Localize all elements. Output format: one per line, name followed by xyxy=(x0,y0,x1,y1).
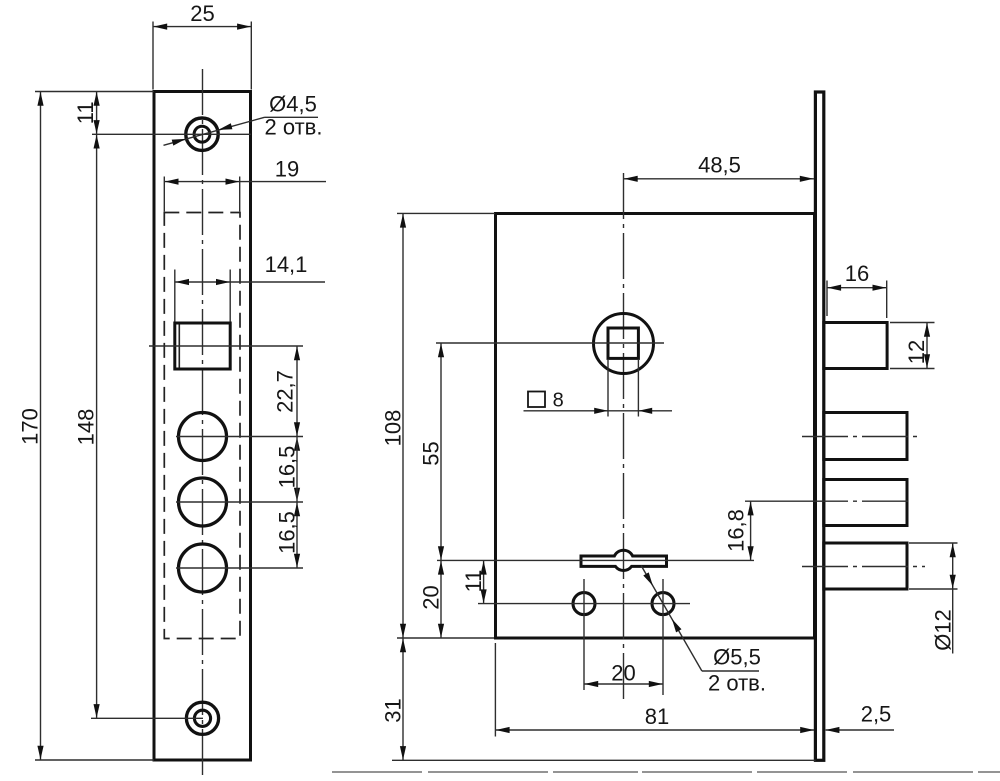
dim square 8 arrows xyxy=(594,408,608,414)
svg-text:16,8: 16,8 xyxy=(724,509,749,552)
latch bolt side view xyxy=(824,323,887,369)
bottom screw hole outer circle xyxy=(186,702,218,734)
dim 22,7 arrows xyxy=(294,346,300,360)
svg-text:8: 8 xyxy=(553,390,564,412)
dim 48,5 line xyxy=(624,178,815,180)
spindle horizontal center line xyxy=(436,342,664,344)
dim 108 top extension xyxy=(397,212,495,214)
leader line diameter 4,5 xyxy=(164,117,265,145)
dim 20 right-view arrows xyxy=(438,561,444,575)
dim 25 extension lines xyxy=(152,22,154,90)
spindle square hole xyxy=(608,328,638,358)
fixing hole right xyxy=(652,593,674,615)
svg-text:16: 16 xyxy=(845,261,869,286)
dim 81 arrows xyxy=(496,727,510,733)
dim 14,1 extension lines xyxy=(174,270,176,322)
bottom screw hole inner circle xyxy=(194,710,210,726)
dim 108 bottom extension xyxy=(397,637,494,639)
svg-text:Ø5,5: Ø5,5 xyxy=(713,645,761,670)
dim 12 extension lines xyxy=(890,322,935,324)
slider center line xyxy=(437,559,754,561)
dim 108 arrows xyxy=(400,214,406,228)
svg-text:170: 170 xyxy=(18,408,43,445)
svg-text:Ø12: Ø12 xyxy=(931,609,956,651)
svg-text:148: 148 xyxy=(74,409,99,446)
dim square 8 symbol xyxy=(528,392,545,408)
dim 22,7 line xyxy=(296,346,298,437)
svg-text:14,1: 14,1 xyxy=(265,252,308,277)
dim 11 arrows left view xyxy=(94,92,100,106)
svg-text:31: 31 xyxy=(381,698,406,722)
dim 11 right-view line xyxy=(483,560,485,603)
dim 2,5 arrow xyxy=(826,727,840,733)
fixing holes horizontal center line xyxy=(478,603,690,605)
dim 12 arrows xyxy=(924,323,930,337)
lock body vertical center line xyxy=(623,173,625,700)
svg-text:25: 25 xyxy=(190,1,214,26)
bolt hole circle 3 xyxy=(179,544,227,592)
dim 16 extension lines xyxy=(826,281,828,317)
deadbolt 1 center line xyxy=(802,436,922,438)
slider lever with boss xyxy=(581,550,667,570)
svg-text:11: 11 xyxy=(461,570,486,593)
bolt hole circle 2 center line xyxy=(176,501,303,503)
deadbolt 2 center line xyxy=(745,500,802,502)
dim 14,1 line xyxy=(175,281,325,283)
dim 19 line xyxy=(164,181,326,183)
dim 16 line xyxy=(827,287,887,289)
svg-text:Ø4,5: Ø4,5 xyxy=(269,92,317,117)
dim 81 line xyxy=(495,729,814,731)
bolt hole circle 1 xyxy=(179,413,227,461)
dim 16,5 upper line xyxy=(296,437,298,503)
dim diameter 12 line xyxy=(952,543,954,654)
dim diameter 12 arrows xyxy=(950,543,956,557)
dim square 8 line xyxy=(524,410,673,412)
dim 16,5 upper arrows xyxy=(294,437,300,451)
deadbolt 3 center line xyxy=(802,566,925,568)
hidden lock body outline (dashed) xyxy=(164,213,240,639)
bolt hole circle 2 xyxy=(179,478,227,526)
dim 11 line left view xyxy=(96,92,98,135)
dim 170 top extension xyxy=(35,91,154,93)
leader arrows diameter 5,5 xyxy=(643,572,653,586)
svg-text:12: 12 xyxy=(904,340,929,364)
dim 31 bottom extension xyxy=(392,759,816,761)
svg-text:2 отв.: 2 отв. xyxy=(708,671,766,696)
top screw hole horizontal center line xyxy=(92,133,251,135)
dim 11 right-view arrows xyxy=(481,561,487,575)
svg-text:11: 11 xyxy=(73,101,98,124)
latch front view square xyxy=(175,323,230,369)
dim 16 arrows xyxy=(827,285,841,291)
dim 2,5 line xyxy=(826,729,894,731)
dim 16,5 lower arrows xyxy=(294,502,300,516)
deadbolt 1 xyxy=(824,413,907,460)
leader arrows diameter 4,5 xyxy=(172,139,186,146)
svg-text:48,5: 48,5 xyxy=(698,153,741,178)
svg-text:22,7: 22,7 xyxy=(273,370,298,413)
svg-text:2,5: 2,5 xyxy=(861,702,892,727)
dim 48,5 arrows xyxy=(624,176,638,182)
bolt hole circle 1 center line xyxy=(176,436,303,438)
deadbolt 2 xyxy=(824,480,907,526)
dim 25 arrows xyxy=(153,24,167,30)
svg-text:2 отв.: 2 отв. xyxy=(265,115,323,140)
dim 25 line xyxy=(153,26,251,28)
faceplate front view outline xyxy=(154,92,251,761)
scan artifact bottom line xyxy=(332,771,1000,773)
svg-text:20: 20 xyxy=(419,585,444,609)
dim 12 line xyxy=(926,323,928,369)
svg-text:55: 55 xyxy=(419,441,444,465)
lock body side view outline xyxy=(496,214,815,639)
dim 148 line xyxy=(96,134,98,718)
dim 148 arrows xyxy=(94,135,100,149)
dim 170 line xyxy=(40,92,42,761)
dim 55 arrows xyxy=(438,343,444,357)
latch bevel line xyxy=(178,325,180,368)
svg-text:108: 108 xyxy=(381,410,406,447)
dim 19 arrows xyxy=(165,179,179,185)
svg-text:81: 81 xyxy=(645,704,669,729)
dim 108 line xyxy=(402,213,404,760)
deadbolt 3 xyxy=(824,543,907,589)
dim 20 bottom line xyxy=(584,683,663,685)
faceplate side view bar xyxy=(815,92,823,760)
svg-text:19: 19 xyxy=(275,157,299,182)
leader line diameter 5,5 xyxy=(641,566,702,671)
dim 81 left extension xyxy=(494,643,496,737)
bottom screw hole center line xyxy=(91,717,203,719)
dim square 8 extension lines xyxy=(607,359,609,417)
latch horizontal center line xyxy=(149,345,303,347)
fixing hole right vertical line xyxy=(662,579,664,695)
dim 20 bottom arrows xyxy=(584,681,598,687)
dim 31 arrows xyxy=(400,638,406,652)
dim 170 bottom extension xyxy=(35,759,154,761)
dim diameter 12 extension lines xyxy=(909,542,958,544)
dim 55 line xyxy=(440,343,442,638)
top screw hole inner circle xyxy=(194,126,210,142)
dim 170 arrows xyxy=(37,92,43,106)
svg-text:20: 20 xyxy=(611,661,635,686)
svg-text:16,5: 16,5 xyxy=(275,446,300,489)
top screw hole outer circle xyxy=(186,118,218,150)
bolt hole circle 3 center line xyxy=(176,567,303,569)
dim 16,8 arrows xyxy=(748,502,754,516)
fixing hole left vertical line xyxy=(583,579,585,690)
dim 16,5 lower line xyxy=(296,502,298,568)
dim 19 extension lines xyxy=(163,177,165,212)
dim 14,1 arrows xyxy=(175,279,189,285)
fixing hole left xyxy=(573,593,595,615)
dim 16,8 line xyxy=(750,501,752,560)
faceplate vertical center line xyxy=(202,69,204,776)
spindle hole circle xyxy=(594,314,654,374)
svg-text:16,5: 16,5 xyxy=(275,511,300,554)
